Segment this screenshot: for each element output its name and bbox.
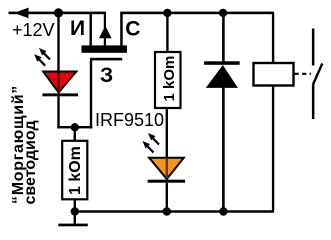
orange LED emission arrows xyxy=(143,133,160,153)
svg-text:+12V: +12V xyxy=(12,20,55,40)
diode VD1 triangle (points up) xyxy=(206,65,238,88)
resistor R1 xyxy=(62,141,87,200)
red LED emission arrows xyxy=(34,48,50,66)
wire: top rail right segment xyxy=(120,12,274,15)
node: junction dot gate/LED/R1 xyxy=(71,123,79,131)
svg-text:1 kOm: 1 kOm xyxy=(67,146,84,195)
wire: diode top lead xyxy=(222,13,225,61)
wire: R1 to bottom rail xyxy=(74,199,76,211)
diode VD1 cathode bar xyxy=(204,61,240,65)
red LED HL1 triangle xyxy=(43,72,76,93)
wire: red LED anode xyxy=(57,13,59,72)
wire: node horizontal LED cathode to gate xyxy=(57,126,92,128)
resistor R2 xyxy=(155,52,181,108)
source lead xyxy=(90,13,92,46)
svg-text:З: З xyxy=(100,64,113,87)
node: junction dot red LED anode on +12V rail xyxy=(54,8,63,17)
body lead xyxy=(104,13,106,46)
svg-text:С: С xyxy=(125,18,140,41)
orange LED anode wire seen through triangle xyxy=(166,159,168,178)
transistor Q1 IRF9510 xyxy=(82,13,128,128)
svg-text:1 kOm: 1 kOm xyxy=(161,56,178,102)
orange LED HL2 triangle xyxy=(149,158,184,179)
wire: +12V top rail left segment xyxy=(9,12,107,15)
wire: red LED cathode down xyxy=(57,96,59,128)
gate plate xyxy=(90,58,122,61)
relay contact switch xyxy=(312,29,322,120)
node: junction dot diode bottom xyxy=(219,207,227,215)
svg-text:IRF9510: IRF9510 xyxy=(95,110,164,130)
gate lead xyxy=(90,60,92,128)
body arrow (points up) xyxy=(99,26,112,39)
wire: node down to R1 xyxy=(74,128,76,141)
wire: bottom rail xyxy=(74,210,274,213)
red LED cathode bar xyxy=(42,93,78,96)
wire: diode bottom lead xyxy=(222,86,225,211)
svg-text:светодиод: светодиод xyxy=(22,120,39,204)
supply arrow (points left) xyxy=(14,8,29,19)
wire: rail to R2 xyxy=(166,13,168,53)
ground xyxy=(58,212,88,226)
svg-text:И: И xyxy=(70,17,85,40)
node: junction dot diode top xyxy=(219,9,227,17)
red LED anode wire seen through triangle xyxy=(57,73,59,93)
wire: orange LED cathode down xyxy=(166,183,168,211)
label "Моргающий" светодиод (rotated) xyxy=(10,85,39,204)
node: junction dot R2 on top rail xyxy=(163,9,171,17)
relay K1 coil box xyxy=(254,63,294,86)
wire: R2 to orange LED xyxy=(166,108,168,158)
orange LED cathode bar xyxy=(148,180,185,183)
node: junction dot orange LED / bottom rail xyxy=(163,207,171,215)
node: junction dot bottom left xyxy=(71,207,79,215)
wire: relay bottom lead xyxy=(272,86,274,211)
dashed mechanical link xyxy=(295,73,312,75)
channel bar xyxy=(82,45,128,52)
drain lead xyxy=(120,13,123,46)
wire: relay top lead xyxy=(272,13,274,63)
